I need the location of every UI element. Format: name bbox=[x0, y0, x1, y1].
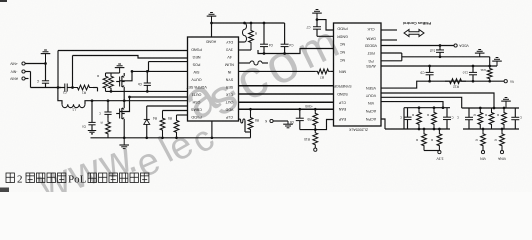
ground bbox=[44, 49, 47, 51]
wire 3V3 bbox=[258, 49, 334, 54]
wire bbox=[177, 114, 188, 116]
node VIN terminal bbox=[481, 151, 484, 154]
wire bus4 bbox=[239, 108, 334, 110]
wire bbox=[147, 105, 188, 107]
PMBus arrow bbox=[404, 30, 424, 37]
wire AVSS gnd bbox=[381, 65, 497, 67]
op-amp U2 controller IC bbox=[334, 23, 382, 126]
node VINA terminal bbox=[500, 151, 503, 154]
wire gate Q2 bbox=[120, 97, 188, 112]
wire bbox=[72, 56, 74, 88]
wire RST fork bbox=[381, 52, 402, 54]
diode D1 bbox=[146, 106, 148, 119]
ground bbox=[287, 121, 289, 124]
capacitor C2 bbox=[58, 87, 65, 89]
wire bbox=[31, 87, 62, 89]
wire VOUT sense bbox=[381, 81, 504, 88]
capacitor C4 bbox=[263, 23, 265, 44]
wire bbox=[58, 88, 62, 105]
inductor FB1 bbox=[243, 23, 247, 42]
caption figure title bbox=[6, 173, 149, 186]
wire pin1 bbox=[317, 20, 334, 30]
ground bbox=[316, 9, 319, 11]
wire bbox=[331, 70, 334, 72]
wire bbox=[403, 108, 405, 129]
node VDDA terminal bbox=[454, 44, 457, 47]
wire bbox=[93, 87, 98, 89]
ground bbox=[123, 138, 125, 145]
ground bbox=[118, 63, 121, 65]
node Vo terminal bbox=[504, 80, 507, 83]
inductor FB2 bbox=[239, 62, 251, 64]
wire bbox=[85, 101, 188, 105]
wire bbox=[163, 110, 188, 112]
wire bbox=[239, 70, 316, 72]
wire bus1 bbox=[239, 85, 334, 87]
wire bbox=[381, 102, 443, 108]
op-amp U1 driver IC bbox=[188, 37, 239, 121]
transistor Q2 bbox=[123, 105, 125, 108]
node 3.3V terminal bbox=[438, 151, 441, 154]
inductor FB3 bbox=[239, 119, 246, 123]
wire DATA bbox=[381, 39, 397, 41]
capacitor C8 bbox=[439, 46, 441, 50]
ground bbox=[88, 130, 96, 132]
wire bbox=[381, 97, 462, 108]
wire bbox=[212, 22, 285, 24]
wire bbox=[57, 51, 59, 88]
wire bbox=[106, 90, 188, 92]
wire POS bbox=[149, 61, 188, 63]
resistor R2b bbox=[109, 73, 114, 91]
wire rail B1 bbox=[385, 128, 450, 130]
inductor L1 bbox=[62, 104, 85, 107]
wire rail bbox=[91, 137, 251, 139]
wire pin2 bbox=[317, 35, 334, 37]
wire bbox=[381, 119, 385, 129]
resistor R12 bbox=[445, 79, 466, 84]
wire VDD33 bbox=[381, 45, 454, 47]
wire NEG bbox=[73, 56, 188, 59]
wire bbox=[25, 71, 31, 73]
wire bbox=[123, 122, 125, 138]
resistor R7 bbox=[315, 69, 331, 74]
ground bbox=[505, 97, 508, 99]
transistor Q1 bbox=[123, 73, 125, 76]
wire bbox=[25, 63, 46, 65]
capacitor C5 bbox=[284, 23, 286, 44]
ground bbox=[496, 57, 499, 59]
node terminal bbox=[314, 148, 317, 151]
wire bbox=[148, 62, 150, 72]
wire rail B2 bbox=[463, 128, 519, 130]
wire bbox=[381, 93, 494, 108]
wire bus2 bbox=[239, 93, 334, 95]
wire RST bbox=[402, 56, 490, 58]
resistor R1 bbox=[74, 85, 93, 90]
wire bbox=[424, 150, 439, 152]
wire bbox=[211, 23, 213, 37]
wire gate Q1 bbox=[120, 71, 188, 80]
resistor R8 bbox=[248, 109, 253, 138]
wire PGND bbox=[58, 50, 188, 52]
wire bbox=[300, 120, 334, 130]
ground bbox=[478, 49, 481, 51]
wire rail T2 bbox=[404, 107, 450, 109]
wire bus3 bbox=[239, 101, 334, 103]
wire bbox=[123, 90, 125, 105]
wire rail T3 bbox=[462, 107, 519, 109]
ground AGND bbox=[210, 12, 213, 14]
wire CLK bbox=[381, 29, 397, 31]
wire PGND stem bbox=[211, 121, 213, 138]
